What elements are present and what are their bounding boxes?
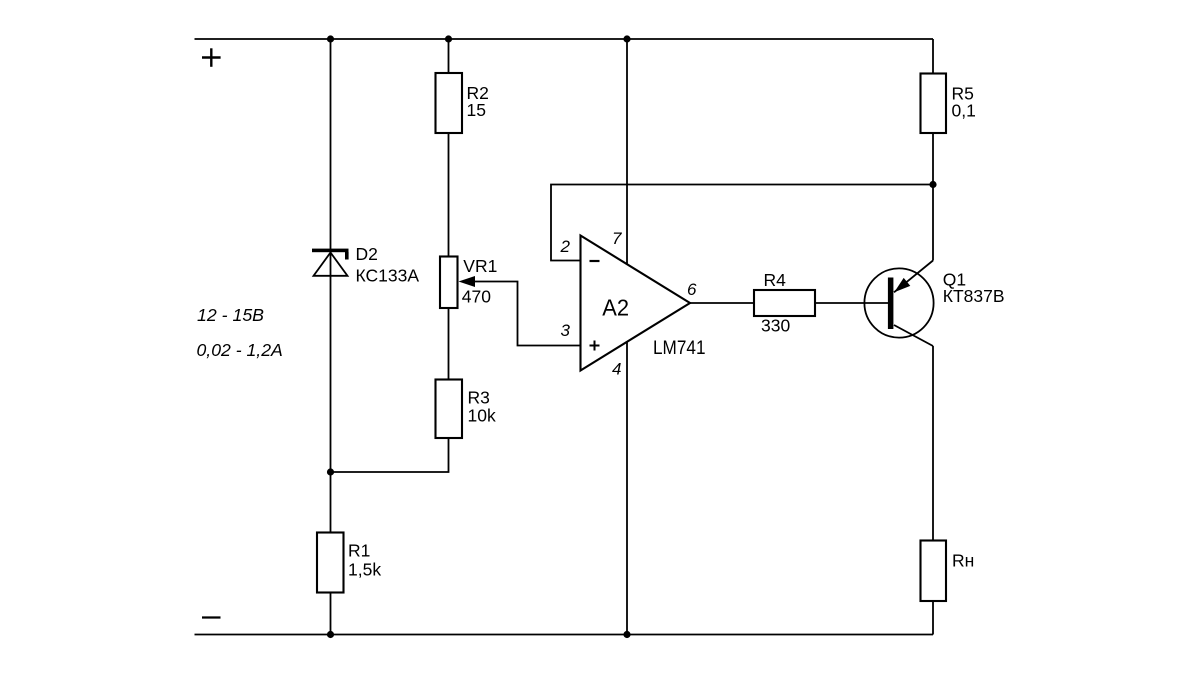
wire op-amp output to base: [690, 302, 889, 304]
svg-text:10k: 10k: [468, 406, 496, 426]
wire middle supply vertical: [626, 39, 628, 635]
node dot top rail / supply: [623, 35, 630, 42]
svg-text:R4: R4: [764, 270, 787, 290]
svg-text:D2: D2: [356, 244, 378, 264]
svg-text:0,02 - 1,2А: 0,02 - 1,2А: [197, 340, 283, 360]
svg-text:LM741: LM741: [653, 338, 706, 359]
wire collector diagonal: [894, 325, 933, 346]
svg-text:6: 6: [687, 280, 697, 299]
resistor R2: [436, 73, 463, 133]
svg-text:15: 15: [467, 100, 486, 120]
wire emitter diagonal: [894, 261, 933, 293]
node dot bottom rail / R1: [327, 631, 334, 638]
svg-text:2: 2: [560, 237, 571, 256]
op-amp plus input mark: [590, 341, 600, 351]
svg-text:КС133А: КС133А: [356, 266, 420, 286]
wire right vertical bottom (collector to rail): [932, 346, 934, 635]
svg-text:0,1: 0,1: [952, 101, 976, 121]
minus terminal: [202, 616, 221, 618]
transistor Q1 emitter arrowhead: [894, 278, 910, 292]
svg-text:3: 3: [561, 321, 571, 340]
op-amp minus input mark: [590, 260, 600, 262]
zener diode D2: [312, 249, 349, 276]
plus terminal: [202, 48, 221, 67]
node dot bottom rail / supply: [623, 631, 630, 638]
wire wiper to pin3: [462, 282, 581, 346]
svg-text:VR1: VR1: [463, 256, 497, 276]
node dot top rail / R2: [445, 35, 452, 42]
transistor Q1 circle: [864, 268, 933, 337]
svg-text:470: 470: [462, 286, 491, 306]
wire feedback pin2 to emitter node: [551, 185, 933, 261]
svg-text:A2: A2: [602, 295, 629, 321]
svg-text:R1: R1: [348, 541, 370, 561]
wire bottom rail: [195, 634, 934, 636]
resistor R1: [317, 533, 344, 593]
svg-text:4: 4: [612, 360, 621, 379]
resistor R5: [921, 74, 947, 134]
wire R2/VR1/R3 branch with jog to node: [331, 39, 449, 472]
wire left branch D2/R1 vertical: [330, 39, 332, 635]
transistor Q1 base bar: [888, 278, 894, 330]
wire top rail: [195, 38, 934, 40]
svg-text:12 - 15В: 12 - 15В: [197, 305, 264, 325]
svg-text:Rн: Rн: [952, 551, 974, 571]
svg-text:1,5k: 1,5k: [348, 560, 381, 580]
node dot feedback / emitter: [929, 181, 936, 188]
resistor R3: [436, 380, 463, 439]
op-amp U1 triangle: [581, 236, 691, 371]
wiper arrow of VR1: [459, 276, 476, 287]
svg-text:7: 7: [612, 229, 622, 248]
svg-text:R3: R3: [468, 388, 490, 408]
node dot top rail / D2: [327, 35, 334, 42]
node dot R3 jog / left branch: [327, 468, 334, 475]
resistor Rn load: [921, 541, 947, 602]
resistor R4: [754, 290, 815, 316]
svg-text:КТ837В: КТ837В: [943, 286, 1005, 306]
svg-text:330: 330: [761, 316, 790, 336]
potentiometer VR1: [440, 257, 458, 309]
wire right vertical top (rail to emitter): [932, 39, 934, 261]
